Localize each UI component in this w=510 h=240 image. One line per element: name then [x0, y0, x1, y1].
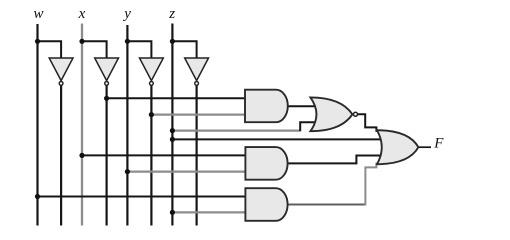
- junction dot x-prime to AND1: [104, 96, 109, 101]
- junction dot w branch: [35, 39, 40, 44]
- junction dot z to OR: [170, 137, 175, 142]
- wire z-prime rail vertical: [196, 85, 198, 225]
- junction dot y to AND2: [125, 169, 130, 174]
- wire y inverter branch: [127, 41, 151, 58]
- OR gate G5 (output F): [377, 130, 418, 164]
- wire y to AND2 bottom input (gray): [127, 170, 245, 172]
- wire w inverter branch: [38, 41, 62, 58]
- junction dot z to AND3: [170, 210, 175, 215]
- wire AND2 output with step up to OR third input: [288, 156, 381, 164]
- wire z inverter branch: [172, 41, 196, 58]
- junction dot y branch: [125, 39, 130, 44]
- AND gate G1 (x'y'): [245, 90, 288, 123]
- NOR gate G4 output bubble: [354, 112, 358, 116]
- wire OR output to F: [418, 146, 431, 148]
- svg-text:F: F: [433, 135, 444, 151]
- AND gate G3 (wz): [245, 188, 287, 221]
- inverter for y: [140, 58, 164, 85]
- svg-text:y: y: [122, 6, 131, 22]
- svg-text:w: w: [33, 6, 43, 22]
- wire z to NOR bottom input riser: [300, 122, 315, 131]
- wire z rail vertical: [171, 24, 173, 226]
- wire x rail vertical (gray): [81, 24, 83, 226]
- wire w-prime rail vertical: [60, 85, 62, 225]
- wire AND1 output to NOR top input: [288, 105, 316, 107]
- inverter for x: [95, 58, 119, 85]
- wire y-prime rail vertical: [150, 85, 152, 225]
- AND gate G2 (xy): [245, 147, 287, 180]
- wire y-prime to AND1 bottom input (gray): [151, 113, 245, 115]
- wire x-prime to AND1 top input: [107, 97, 245, 99]
- NOR gate G4 body: [310, 97, 352, 131]
- wire y rail vertical: [126, 25, 128, 226]
- wire z to AND3 bottom input (gray): [172, 211, 245, 213]
- junction dot x branch: [79, 39, 84, 44]
- wire z to NOR bottom input horizontal (gray): [172, 129, 300, 131]
- wire NOR output staircase to OR top input: [358, 114, 379, 131]
- junction dot z to NOR: [170, 128, 175, 133]
- junction dot x to AND2: [79, 153, 84, 158]
- junction dot y-prime to AND1: [149, 112, 154, 117]
- junction dot w to AND3: [35, 194, 40, 199]
- inverter for z: [185, 58, 209, 85]
- wire x inverter branch: [82, 41, 107, 58]
- wire AND3 output riser jog to OR bottom input (gray): [365, 163, 376, 206]
- wire x to AND2 top input: [82, 154, 245, 156]
- wire AND3 output horizontal (dark gray): [288, 204, 366, 206]
- svg-text:x: x: [78, 6, 86, 22]
- wire z to OR second input: [172, 138, 381, 140]
- inverter for w: [49, 58, 73, 85]
- junction dot z branch: [170, 39, 175, 44]
- wire x-prime rail vertical: [105, 85, 107, 225]
- svg-text:z: z: [168, 6, 175, 22]
- wire w to AND3 top input: [38, 196, 246, 198]
- wire w rail vertical: [36, 24, 38, 226]
